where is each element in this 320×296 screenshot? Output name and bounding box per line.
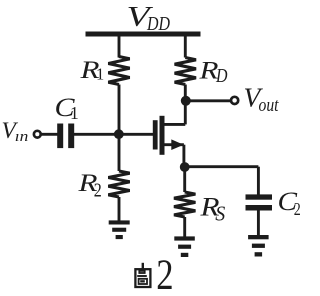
svg-text:2: 2 (294, 199, 301, 219)
svg-text:D: D (215, 66, 227, 87)
svg-text:S: S (215, 202, 225, 226)
svg-text:1: 1 (96, 65, 104, 84)
svg-text:out: out (259, 96, 280, 116)
svg-text:DD: DD (146, 13, 170, 35)
svg-text:2: 2 (156, 252, 173, 296)
svg-text:1: 1 (70, 103, 79, 123)
svg-text:ın: ın (15, 129, 28, 145)
svg-text:2: 2 (94, 180, 102, 202)
